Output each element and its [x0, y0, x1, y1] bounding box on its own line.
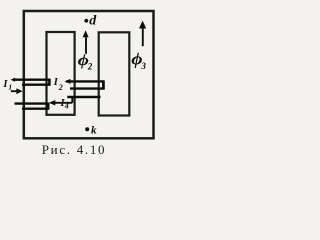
label Phi3 [131, 50, 142, 68]
node k dot [85, 127, 89, 131]
svg-text:d: d [89, 13, 97, 28]
winding W4 bar a3 [15, 102, 49, 104]
node d dot [84, 19, 88, 23]
right window [99, 32, 130, 115]
flux Phi2 arrow [85, 37, 87, 54]
svg-text:2: 2 [58, 83, 63, 92]
winding W1 bar a1 [13, 78, 50, 80]
winding W2 bar C1 with I2 arrowhead [66, 80, 104, 82]
winding W1 lead arrowhead [11, 78, 15, 82]
svg-text:Рис. 4.10: Рис. 4.10 [42, 142, 107, 157]
label Phi2 [78, 50, 89, 68]
svg-text:2: 2 [87, 61, 93, 71]
left window [47, 32, 75, 115]
flux Phi3 arrow [142, 28, 144, 47]
svg-text:3: 3 [140, 61, 146, 71]
svg-text:4: 4 [64, 102, 69, 111]
W2 lower lead connector [71, 96, 73, 102]
winding W4 right connector [47, 103, 50, 110]
winding W2 bar D1 [67, 96, 100, 98]
I4 wire with arrowhead [51, 102, 72, 104]
winding W2 right connector [102, 80, 105, 89]
svg-text:k: k [91, 124, 97, 136]
winding W4 bar a4 [22, 107, 49, 109]
winding W2 bar C2 [70, 87, 104, 89]
svg-text:1: 1 [8, 83, 12, 92]
core outer rectangle [24, 11, 154, 138]
current I1 arrow [11, 90, 18, 92]
winding W1 bar a2 [22, 83, 50, 85]
winding W1 right connector [48, 79, 51, 86]
